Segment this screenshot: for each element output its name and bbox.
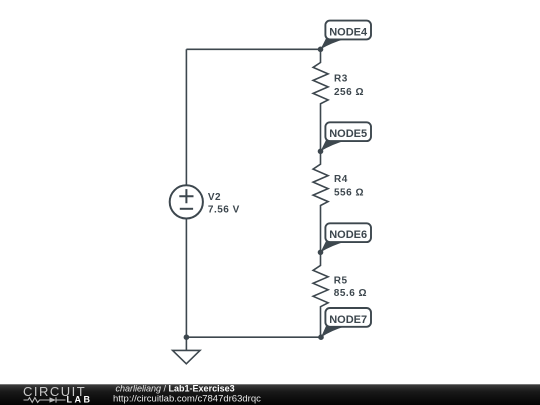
wire ground stem xyxy=(185,337,187,350)
svg-text:NODE6: NODE6 xyxy=(329,229,367,241)
svg-text:NODE4: NODE4 xyxy=(329,26,368,38)
svg-text:R4: R4 xyxy=(334,174,348,185)
node NODE6 flag xyxy=(321,223,372,252)
wire left upper vertical xyxy=(185,49,187,185)
svg-text:NODE7: NODE7 xyxy=(329,314,367,326)
svg-text:256 Ω: 256 Ω xyxy=(334,87,364,98)
svg-text:NODE5: NODE5 xyxy=(329,128,367,140)
svg-text:V2: V2 xyxy=(208,192,221,203)
junction node6 xyxy=(318,250,324,256)
wire left lower vertical xyxy=(185,219,187,338)
wire top horizontal xyxy=(186,48,320,50)
junction node5 xyxy=(318,149,324,155)
wire bottom horizontal xyxy=(186,336,321,338)
svg-text:http://circuitlab.com/c7847dr6: http://circuitlab.com/c7847dr63drqc xyxy=(113,394,261,405)
svg-text:LAB: LAB xyxy=(67,395,93,405)
resistor R4 xyxy=(313,151,328,252)
node NODE4 flag xyxy=(321,21,372,50)
node NODE5 flag xyxy=(321,122,372,151)
voltage source V2 xyxy=(170,185,203,218)
junction ground xyxy=(184,334,190,340)
resistor R5 xyxy=(313,252,328,337)
svg-text:7.56 V: 7.56 V xyxy=(208,204,240,215)
resistor R3 xyxy=(313,49,328,151)
svg-text:charlieliang / Lab1-Exercise3: charlieliang / Lab1-Exercise3 xyxy=(116,384,235,394)
svg-text:556 Ω: 556 Ω xyxy=(334,188,364,199)
svg-text:R5: R5 xyxy=(334,275,348,286)
logo circuit line resistor xyxy=(24,398,50,403)
svg-text:85.6 Ω: 85.6 Ω xyxy=(334,288,367,299)
junction node7 xyxy=(318,334,324,340)
junction node4 xyxy=(318,47,324,53)
logo circuit line diode xyxy=(50,397,57,402)
svg-text:R3: R3 xyxy=(334,73,348,84)
footer bar xyxy=(0,384,540,405)
node NODE7 flag xyxy=(321,308,371,337)
ground xyxy=(173,350,200,363)
